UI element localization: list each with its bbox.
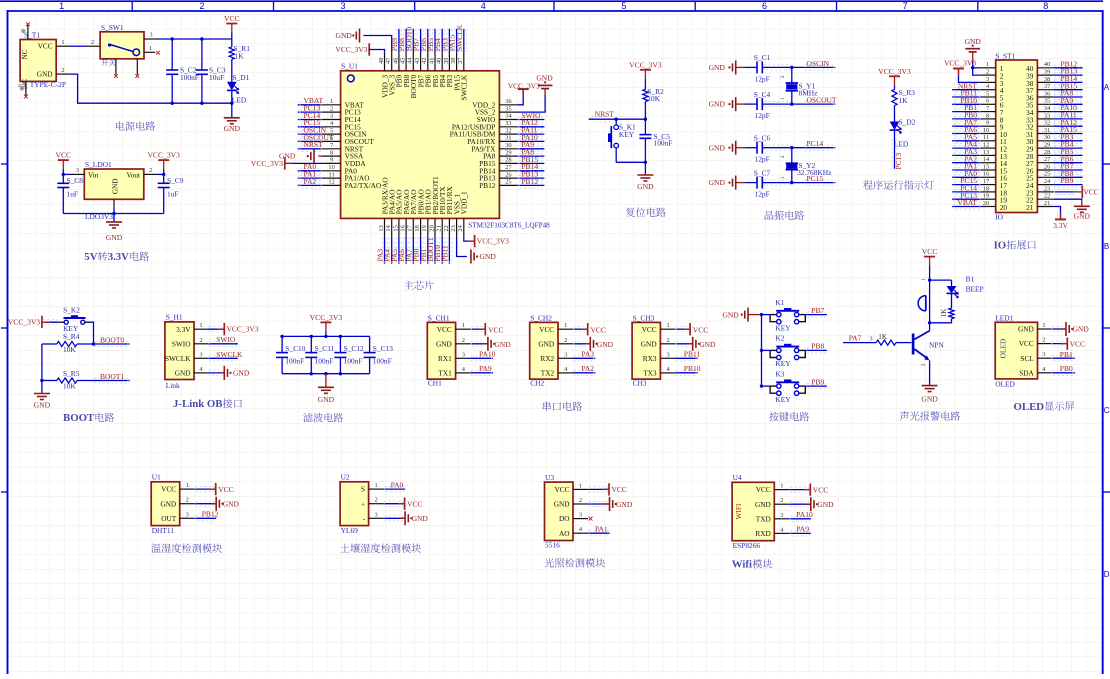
svg-text:2: 2 [986, 69, 989, 76]
svg-text:3: 3 [564, 351, 567, 358]
svg-text:2: 2 [564, 337, 567, 344]
svg-text:PA2: PA2 [304, 177, 317, 186]
net label PC13 (U1 left) [298, 104, 322, 115]
svg-text:3.3V: 3.3V [176, 325, 191, 334]
svg-text:SDA: SDA [1019, 368, 1034, 377]
svg-text:SWCLK: SWCLK [165, 354, 191, 363]
svg-text:GND: GND [480, 252, 497, 261]
power VCC (CH2) [573, 323, 606, 335]
net label VBAT (U1 left) [298, 96, 324, 107]
svg-text:29: 29 [505, 149, 511, 156]
module U3 5516 [545, 473, 589, 550]
resistor R2 10K [643, 87, 664, 119]
wire keys rail [760, 313, 763, 388]
svg-text:S_C12: S_C12 [344, 344, 364, 353]
svg-text:39: 39 [1044, 69, 1050, 76]
ground GND (filter) [318, 374, 335, 404]
wire BOOT0 net [77, 336, 130, 347]
resistor R1 1K [229, 39, 250, 82]
svg-text:OLED: OLED [998, 338, 1007, 358]
connector CH3 [632, 313, 675, 387]
key K2 [770, 334, 805, 368]
net label PA0 (U1 left) [298, 162, 322, 173]
svg-text:5: 5 [986, 90, 989, 97]
svg-text:VCC: VCC [38, 43, 53, 51]
svg-text:GND: GND [709, 178, 726, 187]
svg-text:VCC: VCC [1070, 339, 1085, 348]
LED D2 [890, 117, 916, 148]
svg-text:15: 15 [392, 225, 399, 231]
svg-text:VCC: VCC [437, 325, 452, 334]
svg-text:NC: NC [21, 49, 29, 59]
wire OSCOUT net [762, 96, 837, 107]
power port VCC_3V3 (runled) [878, 67, 911, 90]
svg-text:28: 28 [1044, 149, 1050, 156]
module U2 YL69 [340, 473, 384, 535]
net label SWCLK (jlink) [208, 350, 243, 361]
svg-text:1: 1 [1042, 322, 1045, 329]
svg-text:17: 17 [407, 224, 414, 231]
net label PA2 (CH2) [573, 364, 595, 375]
label 滤波电路 [303, 413, 343, 422]
svg-text:13: 13 [983, 149, 989, 156]
header H1 (J-Link) [165, 313, 208, 390]
svg-text:K2: K2 [775, 334, 784, 343]
net label PA1 (U3) [588, 524, 610, 535]
svg-text:3: 3 [340, 1, 345, 11]
svg-text:GND: GND [224, 124, 241, 133]
svg-text:TX3: TX3 [643, 369, 657, 378]
capacitor C3 10uF [196, 39, 226, 103]
net label PB0 (ST1 left) [952, 111, 981, 122]
svg-text:1: 1 [780, 176, 786, 179]
display LED1 OLED [995, 314, 1051, 389]
svg-text:VCC_3V3: VCC_3V3 [227, 325, 259, 334]
svg-text:RX1: RX1 [438, 354, 452, 363]
svg-text:1: 1 [330, 98, 333, 105]
net label PB13 (U1 right) [518, 170, 545, 181]
net label OSCOUT (U1 left) [298, 133, 334, 144]
ground GND (ldo) [106, 222, 123, 242]
wire T1 VCC to SW1 [70, 45, 86, 47]
net label PA12 (ST1 right) [1053, 118, 1082, 129]
svg-text:1K: 1K [940, 308, 948, 318]
svg-text:21: 21 [1044, 200, 1050, 207]
svg-text:PA3: PA3 [581, 350, 594, 359]
svg-text:3: 3 [186, 511, 189, 518]
svg-text:1: 1 [186, 482, 189, 489]
svg-text:S_C10: S_C10 [285, 344, 305, 353]
svg-text:8: 8 [330, 149, 333, 156]
label OLED显示屏 [1014, 401, 1075, 413]
net label PA10 (ST1 right) [1053, 103, 1082, 114]
resistor R5 10K [42, 369, 80, 390]
svg-text:12pF: 12pF [755, 190, 770, 199]
svg-text:VCC_3V3: VCC_3V3 [508, 81, 540, 90]
key K3 [770, 369, 805, 403]
svg-text:TX2: TX2 [541, 369, 555, 378]
net label PC14 (ST1 left) [952, 184, 981, 195]
net label PA3 (U1 bottom) [376, 237, 388, 264]
svg-text:1: 1 [921, 278, 927, 281]
power 3.3V (ST1 pin21) [1053, 207, 1068, 231]
net label PA9 (ST1 right) [1053, 96, 1082, 107]
net label PC15 (U1 left) [298, 118, 322, 129]
resistor 1K (base) [876, 333, 911, 345]
net label PB10 (ST1 left) [952, 96, 981, 107]
ground GND (crystal S_C1) [709, 60, 745, 74]
svg-text:KEY: KEY [775, 359, 791, 368]
svg-text:LED1: LED1 [995, 314, 1013, 323]
label Wifi模块 [732, 559, 773, 571]
ground GND (ST1 pin22) [1053, 199, 1090, 220]
net label PB14 (ST1 right) [1053, 74, 1082, 85]
capacitor C11 100nF [305, 336, 334, 373]
svg-text:PA9: PA9 [479, 364, 492, 373]
svg-text:VCC: VCC [539, 325, 554, 334]
svg-text:100nF: 100nF [285, 356, 304, 365]
svg-text:10: 10 [328, 164, 334, 171]
net label PA10 (U4) [789, 510, 813, 521]
svg-text:KEY: KEY [775, 395, 791, 404]
net label PB15 (U1 right) [518, 155, 545, 166]
ground GND (jlink) [208, 366, 250, 380]
svg-text:PA7: PA7 [849, 334, 862, 343]
svg-text:100nF: 100nF [315, 356, 334, 365]
svg-text:SCL: SCL [1020, 354, 1034, 363]
svg-text:VDD_1: VDD_1 [460, 191, 469, 214]
svg-text:S_C9: S_C9 [167, 176, 184, 185]
svg-text:VCC: VCC [813, 485, 828, 494]
svg-text:PB1: PB1 [1060, 350, 1073, 359]
svg-text:B1: B1 [966, 274, 975, 283]
svg-text:16: 16 [400, 225, 407, 231]
power VCC (CH3) [675, 323, 708, 335]
svg-text:26: 26 [505, 171, 511, 178]
svg-text:32: 32 [1044, 120, 1050, 127]
svg-text:SWCLK: SWCLK [455, 24, 464, 51]
ground GND (U1 VSS_1) [457, 237, 497, 264]
svg-text:GND: GND [1074, 212, 1091, 221]
wire SW1 pin3 to VCC rail [158, 37, 232, 40]
power VCC_3V3 (boot) [8, 316, 58, 328]
wire alarm top node [928, 270, 952, 282]
capacitor C13 100nF [364, 336, 394, 373]
net label PB9 (U1 top) [390, 29, 402, 53]
svg-text:100nF: 100nF [654, 138, 673, 147]
svg-text:S_CH1: S_CH1 [428, 313, 450, 322]
svg-text:D: D [1104, 570, 1110, 579]
svg-text:27: 27 [1044, 156, 1051, 163]
svg-text:40: 40 [436, 58, 443, 64]
svg-text:25: 25 [505, 179, 511, 186]
svg-text:21: 21 [436, 225, 443, 231]
svg-text:3: 3 [462, 351, 465, 358]
svg-text:2: 2 [666, 337, 669, 344]
svg-text:S_C1: S_C1 [754, 53, 771, 62]
svg-text:SWIO: SWIO [216, 335, 236, 344]
net label PA8 (ST1 right) [1053, 89, 1082, 100]
svg-text:14: 14 [385, 224, 392, 231]
svg-text:PA1: PA1 [595, 524, 608, 533]
svg-text:11: 11 [983, 134, 989, 141]
label 土壤湿度检测模块 [340, 543, 421, 553]
svg-text:NRST: NRST [595, 110, 615, 119]
net label PB0 (oled) [1051, 364, 1075, 375]
svg-text:Wifi: Wifi [732, 559, 752, 571]
net label PB11 (ST1 left) [952, 89, 981, 100]
buzzer B1 BEEP [918, 274, 984, 366]
svg-text:3.3V: 3.3V [1053, 221, 1068, 230]
ground GND (U1 VSS_3) [336, 29, 392, 53]
svg-text:20: 20 [1000, 203, 1008, 212]
capacitor C9 1uF [158, 174, 184, 213]
net label PB15 (ST1 right) [1053, 81, 1082, 92]
net label PA0 (U2) [384, 480, 406, 491]
svg-text:TYPE-C-2P: TYPE-C-2P [30, 80, 66, 89]
svg-text:3: 3 [869, 336, 872, 343]
svg-text:41: 41 [428, 58, 435, 64]
svg-text:PC13: PC13 [894, 153, 903, 170]
ground GND (U4) [789, 497, 834, 511]
net label PB5 (U1 top) [426, 29, 438, 53]
svg-text:GND: GND [436, 339, 452, 348]
svg-text:38: 38 [450, 58, 457, 64]
ground GND (crystal S_C6) [709, 141, 745, 155]
svg-text:12: 12 [328, 179, 334, 186]
svg-text:PA10: PA10 [479, 350, 496, 359]
svg-text:PB10: PB10 [684, 364, 701, 373]
svg-text:J-Link OB: J-Link OB [173, 398, 223, 410]
label 程序运行指示灯 [863, 180, 934, 189]
svg-text:3: 3 [199, 351, 202, 358]
svg-text:8: 8 [986, 112, 989, 119]
net label PB1 (ST1 left) [952, 103, 981, 114]
key K2 (boot) [58, 305, 89, 333]
svg-text:2: 2 [780, 155, 786, 158]
svg-text:1: 1 [149, 45, 152, 52]
connector T1 TYPE-C-2P [18, 22, 71, 98]
svg-text:B: B [1104, 242, 1109, 251]
svg-text:12pF: 12pF [755, 111, 770, 120]
net label PB12 (U1) [195, 510, 219, 521]
svg-text:1: 1 [462, 322, 465, 329]
regulator LDO1 LDO3V3 [71, 160, 158, 221]
svg-text:K3: K3 [775, 369, 784, 378]
svg-text:22: 22 [443, 225, 450, 231]
wire PC13 (runled) [892, 131, 903, 170]
module U4 ESP8266 [732, 473, 789, 550]
transistor Q1 NPN [912, 321, 945, 386]
LED D1 [227, 73, 250, 118]
svg-text:AO: AO [559, 529, 570, 538]
svg-text:GND: GND [336, 31, 353, 40]
svg-text:PB0: PB0 [1060, 364, 1073, 373]
svg-text:S_C8: S_C8 [67, 176, 84, 185]
svg-text:8MHz: 8MHz [799, 88, 819, 97]
svg-text:1: 1 [564, 322, 567, 329]
crystal Y1 8MHz [780, 66, 818, 106]
net label PA9 (U1 right) [518, 140, 545, 151]
svg-text:GND: GND [616, 500, 633, 509]
svg-text:9: 9 [330, 157, 333, 164]
svg-text:18: 18 [983, 185, 989, 192]
svg-text:PA9: PA9 [796, 525, 809, 534]
wire OSCIN net [762, 59, 835, 70]
svg-text:GND: GND [722, 310, 739, 319]
svg-text:6: 6 [762, 1, 767, 11]
svg-text:CH1: CH1 [428, 379, 442, 388]
net label PB5 (ST1 right) [1053, 147, 1082, 158]
svg-text:26: 26 [1044, 163, 1050, 170]
svg-text:GND: GND [233, 368, 250, 377]
svg-text:47: 47 [385, 57, 392, 64]
net label PA7 (ST1 left) [952, 118, 981, 129]
svg-text:S_C7: S_C7 [754, 168, 771, 177]
svg-text:1: 1 [780, 483, 783, 490]
power VCC (U3) [588, 483, 627, 495]
svg-text:35: 35 [1044, 98, 1050, 105]
wire filter bottom rail [282, 372, 370, 375]
svg-text:RX2: RX2 [540, 354, 554, 363]
svg-text:PA2/TX/AO: PA2/TX/AO [345, 181, 382, 190]
resistor R3 1K [892, 88, 915, 122]
svg-text:1K: 1K [899, 96, 909, 105]
svg-text:GND: GND [755, 500, 771, 509]
svg-text:2: 2 [149, 167, 152, 174]
wire ldo gnd rail [63, 208, 163, 223]
svg-text:3: 3 [374, 511, 377, 518]
label IO拓展口 [994, 240, 1036, 252]
svg-text:12pF: 12pF [755, 155, 770, 164]
svg-text:7: 7 [903, 1, 908, 11]
wire reset bottom [616, 161, 647, 175]
net label PB14 (U1 right) [518, 162, 545, 173]
svg-text:OLED: OLED [1014, 401, 1045, 413]
svg-text:2: 2 [330, 105, 333, 112]
svg-text:RX3: RX3 [643, 354, 657, 363]
svg-text:10K: 10K [647, 94, 660, 103]
label 复位电路 [626, 208, 666, 217]
svg-text:2: 2 [186, 497, 189, 504]
crystal Y2 32.768KHz [780, 146, 832, 184]
svg-text:GND: GND [965, 37, 982, 46]
svg-text:VCC_3V3: VCC_3V3 [878, 67, 911, 76]
svg-text:IO: IO [995, 212, 1003, 221]
svg-text:2: 2 [91, 39, 94, 46]
LED (alarm branch) [947, 280, 959, 298]
net label PB13 (ST1 right) [1053, 67, 1082, 78]
net label PA6 (U1 bottom) [397, 237, 409, 264]
svg-text:32.768KHz: 32.768KHz [797, 168, 832, 177]
label 5V转3.3V电路 [84, 251, 149, 263]
svg-text:33: 33 [505, 120, 511, 127]
svg-text:VCC_3V3: VCC_3V3 [251, 159, 283, 168]
svg-text:1: 1 [199, 322, 202, 329]
svg-text:23: 23 [450, 225, 457, 231]
power VCC (U2) [384, 498, 423, 510]
svg-text:100nF: 100nF [373, 356, 392, 365]
svg-text:VCC: VCC [591, 326, 606, 335]
svg-text:2: 2 [199, 1, 204, 11]
svg-text:30: 30 [1044, 134, 1050, 141]
power VCC (U1) [195, 483, 234, 495]
net label PB10 (CH3) [675, 364, 700, 375]
wire filter top rail [280, 335, 369, 338]
svg-text:28: 28 [505, 157, 511, 164]
svg-text:VCC: VCC [922, 247, 938, 256]
svg-text:1K: 1K [235, 52, 245, 61]
ground GND (ST1 top) [965, 37, 982, 75]
net label PA6 (ST1 left) [952, 125, 981, 136]
svg-text:GND: GND [597, 340, 614, 349]
wire vcc to vin [62, 173, 71, 176]
svg-text:GND: GND [34, 401, 51, 410]
svg-text:S_C13: S_C13 [373, 344, 393, 353]
ground GND (reset) [637, 175, 654, 191]
svg-text:GND: GND [709, 143, 726, 152]
label 温湿度检测模块 [151, 543, 222, 553]
ground GND (U1 VSSA) [279, 149, 322, 163]
svg-text:GND: GND [921, 395, 938, 404]
net label PB6 (ST1 right) [1053, 154, 1082, 165]
svg-text:GND: GND [536, 74, 553, 83]
svg-text:GND: GND [1018, 325, 1034, 334]
svg-text:S_U1: S_U1 [341, 62, 358, 71]
net label PB1 (oled) [1051, 350, 1075, 361]
wire PC15 net [762, 174, 835, 185]
ground GND (crystal S_C7) [709, 176, 745, 190]
svg-text:34: 34 [1044, 105, 1051, 112]
svg-text:43: 43 [414, 58, 421, 64]
capacitor C2 100nF [166, 39, 199, 103]
ground GND (keys) [722, 308, 761, 322]
svg-text:5: 5 [621, 1, 626, 11]
svg-text:GND: GND [1073, 325, 1090, 334]
svg-text:SWCLK: SWCLK [460, 74, 469, 100]
wire PB8 (keys) [762, 342, 827, 353]
svg-text:CH2: CH2 [530, 379, 544, 388]
svg-text:34: 34 [505, 113, 512, 120]
net label PA1 (ST1 left) [952, 162, 981, 173]
svg-text:DO: DO [559, 514, 570, 523]
capacitor C5 100nF [639, 119, 672, 162]
capacitor C8 1uF [57, 174, 83, 213]
net label PC13 (ST1 left) [952, 191, 981, 202]
ground GND (U1) [195, 497, 240, 511]
power VCC (alarm) [922, 247, 938, 270]
label 光照检测模块 [545, 558, 606, 567]
svg-text:PC14: PC14 [807, 139, 824, 148]
label 主芯片 [404, 281, 434, 290]
ground GND (power circuit) [224, 118, 241, 133]
key K1 (reset) [608, 119, 636, 162]
svg-text:3: 3 [76, 167, 79, 174]
svg-text:VCC_3V3: VCC_3V3 [944, 58, 976, 67]
svg-text:37: 37 [457, 57, 464, 64]
svg-text:S_D1: S_D1 [233, 73, 250, 82]
svg-text:37: 37 [1044, 83, 1051, 90]
net label PB1 (U1 bottom) [419, 237, 431, 264]
svg-text:S_CH3: S_CH3 [633, 313, 655, 322]
svg-text:GND: GND [494, 340, 511, 349]
svg-text:GND: GND [160, 499, 176, 508]
net label PB8 (U1 top) [397, 29, 409, 53]
svg-text:U3: U3 [545, 473, 554, 482]
net label PA2 (U1 left) [298, 177, 322, 188]
net label SWIO (U1 right) [518, 111, 545, 122]
svg-text:36: 36 [505, 98, 511, 105]
